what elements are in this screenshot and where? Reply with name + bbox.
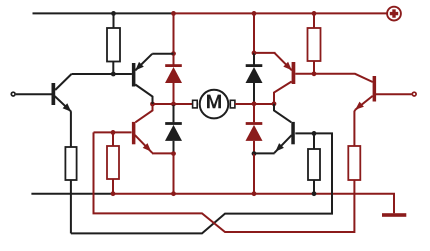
wire top rail left (black, +V rail)	[33, 12, 174, 14]
wire cross-coupling black: R2 bottom to Q5 base	[71, 133, 332, 233]
wire Q5 emitter to D4 node (black)	[254, 152, 275, 154]
motor M1 right terminal	[230, 100, 235, 108]
wire Q3 base to Q6 collector (red)	[295, 74, 372, 82]
node junction Q3/Q5 collectors	[272, 101, 277, 106]
wire Q4 emitter to D2 node (red)	[152, 152, 174, 154]
node junction ground line x=254	[252, 191, 257, 196]
terminal input left	[11, 92, 15, 96]
wire D3 cathode lead (black)	[253, 53, 255, 65]
motor M1 body	[200, 90, 229, 119]
wire Q2 emitter to tap (black)	[152, 53, 173, 55]
node junction top rail / R1	[111, 11, 116, 16]
wire R3 top lead	[112, 132, 114, 146]
wire Q6 base to terminal	[376, 93, 412, 95]
wire R1 bottom lead	[112, 62, 114, 75]
node junction Q2 emitter tap	[171, 51, 176, 56]
node junction R5 top / Q5 base	[312, 131, 317, 136]
wire R2 bottom lead (black)	[70, 180, 72, 233]
wire top rail right (red, +V rail)	[174, 12, 387, 14]
wire motor left (red)	[153, 103, 193, 105]
transistor Q5 (NPN, black)	[274, 104, 295, 153]
node junction R1 / Q2 base	[111, 72, 116, 77]
node junction Q3 emitter tap	[252, 51, 257, 56]
wire Q1 emitter down to R2	[70, 112, 72, 148]
wire Q4 base (red)	[94, 131, 132, 133]
node junction top rail / R4	[312, 11, 317, 16]
wire D2 node down to ground line (red)	[173, 154, 175, 194]
terminal V+ (plus circle)	[387, 7, 401, 21]
wire R3 bottom lead	[112, 179, 114, 194]
wire R1 top lead	[113, 13, 115, 28]
transistor Q2 (PNP, black)	[132, 54, 153, 104]
wire ground line right (red)	[113, 194, 394, 214]
node junction R4 / Q3 base	[312, 71, 317, 76]
diode D4 (red, cathode up)	[246, 122, 263, 141]
diode D3 (black, cathode up)	[246, 64, 263, 83]
diode D2 (black, cathode up)	[165, 122, 182, 141]
wire R4 top lead	[313, 13, 315, 28]
wire D2 anode lead (black)	[173, 141, 175, 154]
transistor Q1 (NPN, black)	[52, 74, 72, 112]
wire R4 bottom lead	[313, 61, 315, 74]
node junction Q2/Q4 collectors	[150, 102, 155, 107]
wire D4 anode lead (red)	[253, 141, 255, 154]
diode D1 (red, cathode up)	[165, 64, 182, 83]
resistor R3	[107, 146, 119, 179]
transistor Q3 (PNP, red)	[274, 53, 295, 104]
wire top rail to D1 (red)	[173, 13, 175, 64]
terminal input right	[412, 92, 416, 96]
transistor Q4 (NPN, red)	[132, 104, 153, 153]
wire D1 anode to motor-left node (red)	[173, 83, 175, 104]
motor M1 left terminal	[193, 100, 198, 108]
node motor-left junction at D1/D2	[171, 102, 176, 107]
wire R5 top lead	[313, 133, 315, 149]
resistor R4	[308, 28, 321, 61]
wire ground line left (black)	[31, 193, 113, 195]
wire top rail to D3 upper lead (red then black)	[253, 13, 255, 53]
wire D3 anode to motor-right node (black)	[253, 83, 255, 104]
resistor R2	[65, 147, 76, 180]
node junction top rail / D3 branch	[252, 11, 257, 16]
node junction Q5 emitter / D4	[252, 151, 257, 156]
node junction ground line x=173.5	[171, 191, 176, 196]
node junction ground line / R3	[111, 191, 116, 196]
wire motor right (red)	[235, 103, 274, 105]
wire R5 bottom lead	[313, 180, 315, 194]
wire Q1 collector to Q2 base	[72, 73, 132, 75]
resistor R1	[107, 28, 120, 62]
wire cross-coupling red: Q4 base to R6 bottom	[94, 132, 355, 232]
node motor-right junction at D3/D4	[252, 101, 257, 106]
transistor Q6 (NPN, red)	[355, 76, 376, 110]
resistor R5	[308, 149, 320, 180]
node junction top rail / D1 branch	[171, 11, 176, 16]
node junction R3 top / Q4 base	[111, 130, 116, 135]
node junction ground line / R5	[312, 191, 317, 196]
wire Q1 base	[16, 93, 52, 95]
wire Q3 emitter to tap (red)	[254, 52, 276, 54]
resistor R6	[348, 146, 360, 180]
wire motor-left node to D2 (black)	[173, 104, 175, 122]
wire D4 node down to ground line (red)	[253, 154, 255, 194]
node junction Q4 emitter / D2	[171, 151, 176, 156]
wire motor-right node to D4 (red)	[253, 104, 255, 123]
wire Q6 emitter down to R6	[353, 110, 356, 146]
ground	[382, 213, 406, 217]
